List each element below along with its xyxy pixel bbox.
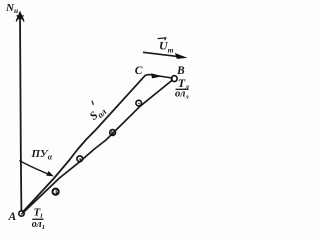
angle arc arrowhead — [46, 171, 54, 176]
DR mark circle c4 — [136, 100, 142, 106]
fraction T1/ol1 at A — [32, 207, 45, 231]
axis N arrowhead — [16, 13, 24, 22]
DR mark circle c3 — [110, 130, 116, 136]
point B — [171, 76, 177, 82]
label S_ol rotated along line A-C — [83, 98, 109, 124]
label U_T with overbar — [158, 38, 174, 55]
segment C-B — [150, 75, 171, 78]
vertex C corner — [145, 74, 150, 77]
vector U_T line — [143, 52, 184, 57]
segment C-B arrowhead — [151, 73, 162, 78]
fraction Tl/oll at B — [175, 76, 189, 101]
axis N vertical line — [20, 16, 21, 212]
vector U_T arrowhead — [175, 53, 188, 59]
line A-C — [22, 75, 145, 212]
svg-text:A: A — [8, 211, 17, 223]
DR mark circle c1 — [53, 189, 59, 195]
line A-B — [23, 81, 172, 214]
DR mark circle c2 — [77, 156, 83, 162]
svg-text:C: C — [135, 65, 143, 77]
point A — [19, 211, 24, 216]
angle arc PU — [19, 161, 50, 176]
